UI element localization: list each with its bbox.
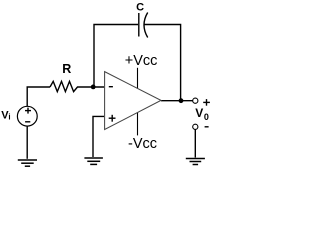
svg-text:i: i [8,113,10,122]
svg-text:R: R [62,62,71,76]
svg-text:-Vcc: -Vcc [128,136,157,152]
svg-text:+Vcc: +Vcc [125,53,158,69]
svg-text:0: 0 [204,112,209,122]
svg-text:V: V [195,106,203,120]
svg-text:C: C [136,1,144,13]
